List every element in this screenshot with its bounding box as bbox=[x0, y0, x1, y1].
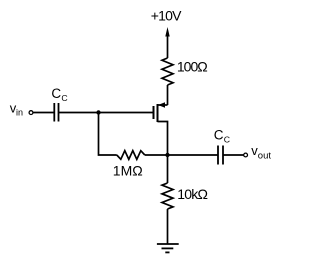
svg-text:C: C bbox=[61, 93, 67, 103]
wire R2 to source node bbox=[145, 154, 168, 156]
svg-text:C: C bbox=[51, 86, 61, 101]
wire source node to C_C output bbox=[168, 154, 219, 156]
junction dot gate node bbox=[96, 110, 100, 114]
svg-text:+10V: +10V bbox=[151, 8, 182, 24]
svg-text:out: out bbox=[258, 151, 272, 162]
resistor R3 10kohm bbox=[162, 183, 173, 209]
svg-text:1MΩ: 1MΩ bbox=[113, 162, 143, 178]
svg-text:in: in bbox=[16, 107, 23, 117]
wire R1 to drain bbox=[167, 85, 169, 105]
svg-text:C: C bbox=[214, 128, 224, 143]
svg-text:100Ω: 100Ω bbox=[177, 59, 207, 75]
wire gate node down to R2 bbox=[99, 113, 117, 156]
wire source node to R3 bbox=[167, 155, 169, 183]
terminal v_out bbox=[244, 153, 248, 157]
transistor Q1 bbox=[154, 102, 168, 155]
wire C_C to gate node bbox=[59, 112, 99, 114]
resistor R2 1Mohm bbox=[117, 151, 145, 160]
svg-text:C: C bbox=[224, 135, 230, 145]
wire gate bbox=[99, 112, 154, 114]
wire R3 to ground bbox=[167, 209, 169, 244]
capacitor C_C input bbox=[54, 103, 58, 122]
terminal v_in bbox=[29, 111, 33, 115]
junction dot source node bbox=[165, 153, 169, 157]
wire v_in to C_C input bbox=[33, 112, 54, 114]
ground bbox=[157, 244, 179, 252]
resistor R1 100ohm bbox=[162, 58, 173, 85]
supply arrow bbox=[165, 27, 169, 58]
svg-text:10kΩ: 10kΩ bbox=[177, 186, 207, 202]
wire C_C to v_out bbox=[223, 154, 244, 156]
capacitor C_C output bbox=[218, 146, 223, 165]
